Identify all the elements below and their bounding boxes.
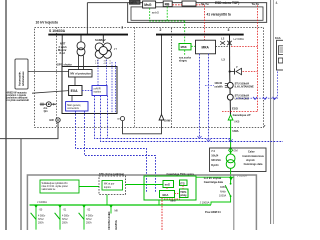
red control wire right riser — [257, 5, 259, 112]
blue control riser 3 — [95, 96, 231, 139]
KAA remote box — [275, 36, 286, 70]
svg-text:EXA: EXA — [71, 89, 79, 93]
LV switchboard enclosure — [27, 175, 256, 232]
svg-text:L2 630A: L2 630A — [234, 37, 245, 41]
svg-text:10kJ4: 10kJ4 — [211, 155, 219, 158]
green feeder arrow — [228, 115, 233, 120]
svg-text:anbG: anbG — [152, 11, 160, 15]
motor feeder — [102, 36, 104, 44]
green tap y178 — [196, 176, 234, 178]
busbar section A — [48, 34, 128, 36]
svg-text:ITG: ITG — [180, 181, 184, 185]
device box RB — [163, 1, 172, 7]
svg-text:J 1000A: J 1000A — [37, 200, 47, 204]
LV busbar green — [30, 204, 212, 206]
dashed link MRA to breaker — [216, 46, 230, 48]
green control wire drop to MSK — [184, 21, 186, 44]
red link EKA-TSPG — [175, 193, 180, 195]
green wire MK to enG — [126, 184, 164, 186]
device box MFR — [130, 0, 141, 4]
svg-text:4/0832-W muuasta: 4/0832-W muuasta — [7, 91, 28, 94]
svg-text:200A: 200A — [86, 221, 92, 224]
svg-text:P: P — [236, 65, 238, 69]
feeder to LV board — [20, 139, 22, 230]
genset LV cabinet green — [144, 176, 196, 200]
svg-text:vaksmaks ke: vaksmaks ke — [42, 188, 56, 191]
MSK note text — [179, 57, 192, 63]
earth link bottom left — [0, 122, 58, 138]
svg-text:41 varasyöttö ta: 41 varasyöttö ta — [207, 13, 231, 17]
ESD micro TSP outer enclosure — [128, 3, 267, 23]
svg-text:enG: enG — [165, 183, 170, 187]
relay EXA box — [69, 86, 82, 96]
svg-text:L3: L3 — [222, 58, 226, 62]
red control wire RB to Ta/Tu — [172, 4, 182, 6]
svg-text:Automaattin.: Automaattin. — [19, 71, 22, 86]
incoming feeder arrow line — [161, 36, 163, 115]
svg-text:7.4: 7.4 — [211, 150, 215, 153]
svg-text:ESD micro TSP): ESD micro TSP) — [215, 1, 239, 5]
svg-text:transformatorious: transformatorious — [242, 155, 264, 158]
LV feeder 1 — [31, 205, 46, 230]
svg-text:K6Bv: K6Bv — [220, 186, 227, 189]
auto sync selector box — [15, 59, 28, 89]
svg-text:ESO: ESO — [232, 107, 239, 111]
blue tele text — [214, 82, 223, 88]
generator leads blue a — [97, 60, 99, 86]
wire busbar to ESD cabinet — [87, 3, 127, 34]
10 kV switchgear enclosure (dashed) — [35, 27, 264, 127]
svg-text:Pow HDM 04: Pow HDM 04 — [205, 210, 221, 214]
svg-text:1: 1 — [121, 25, 123, 29]
svg-text:TSPG: TSPG — [180, 192, 186, 194]
MK inner box green — [102, 181, 123, 191]
box ITG — [180, 180, 188, 186]
svg-text:Dyn11: Dyn11 — [211, 164, 219, 167]
svg-text:RB: RB — [165, 3, 170, 7]
generator cluster — [95, 43, 111, 58]
page border right (double) — [271, 0, 274, 224]
red wire horizontal lower — [222, 111, 258, 113]
svg-text:630 kVA: 630 kVA — [211, 159, 221, 162]
svg-text:MV of protection: MV of protection — [70, 72, 91, 76]
svg-text:Cawirtelga TS/G systra: Cawirtelga TS/G systra — [167, 173, 195, 176]
note text block left — [7, 91, 30, 102]
green LV lead to switchboard — [230, 168, 232, 183]
svg-text:tahdistuksee: tahdistuksee — [22, 71, 25, 86]
CT circle 1 — [227, 82, 233, 88]
svg-text:200A: 200A — [38, 221, 44, 224]
CT 1 label — [235, 82, 254, 88]
svg-text:8.1d: 8.1d — [60, 51, 66, 55]
transformer NRT feeder — [80, 36, 82, 43]
wire note to EXA — [32, 91, 69, 94]
svg-text:kopics: kopics — [104, 186, 112, 189]
svg-text:MsG: MsG — [144, 3, 152, 7]
LV feeder 4 stub — [109, 205, 118, 214]
svg-text:Cummings data: Cummings data — [244, 163, 263, 166]
svg-text:EKA: EKA — [163, 193, 169, 197]
svg-text:NOUSU A1B4: NOUSU A1B4 — [107, 211, 111, 229]
svg-text:Qm: Qm — [44, 110, 48, 113]
svg-text:NHdr: NHdr — [220, 190, 226, 193]
green LV riser — [230, 120, 232, 154]
svg-text:4.: 4. — [276, 1, 279, 5]
svg-text:J 1000A: J 1000A — [200, 200, 210, 204]
blue control riser 2 — [85, 111, 156, 192]
transformer NRT — [77, 42, 85, 56]
box enG — [163, 181, 174, 188]
surge diode branch — [230, 68, 242, 74]
svg-text:connectors: connectors — [67, 107, 79, 110]
red label land — [164, 198, 180, 200]
cubicle divider b — [134, 27, 136, 127]
svg-text:SAIMAV: SAIMAV — [95, 38, 106, 42]
blue control riser 1 — [76, 111, 147, 192]
surge counter node GW — [49, 118, 60, 122]
svg-text:4x185A: 4x185A — [114, 220, 118, 230]
blue telemetering bus to KAA — [236, 70, 278, 98]
busbar section B — [156, 34, 244, 36]
green control wire from MsG — [150, 8, 185, 21]
relay MRA box — [196, 40, 216, 54]
svg-text:cm: cm — [117, 118, 120, 121]
green stub below MSK — [184, 50, 186, 56]
red control wire to MRA — [204, 5, 206, 40]
box EKA2 — [160, 191, 175, 198]
blue junction marks on bus — [198, 136, 233, 142]
svg-text:Calxe: Calxe — [248, 151, 255, 154]
LV switch fuse — [225, 183, 231, 197]
svg-text:proletions alkkuvat: proletions alkkuvat — [7, 97, 28, 100]
svg-text:MRA: MRA — [202, 45, 210, 49]
blue control riser 4 — [101, 96, 284, 142]
svg-text:shynck: shynck — [246, 159, 255, 162]
transformer NRT secondary leads — [79, 55, 84, 70]
terminal right GM — [117, 117, 124, 121]
wire MV to EXA — [74, 77, 76, 86]
LV note box green — [40, 180, 79, 193]
blue tele stub — [205, 84, 214, 86]
cubicle divider a — [56, 27, 58, 127]
green wire to LV busbar — [211, 196, 231, 204]
svg-text:land: land — [171, 199, 176, 202]
red link breaker to riser — [231, 46, 258, 48]
generator control cabinet (inner box) — [62, 67, 117, 114]
green link note to MK — [79, 186, 99, 188]
riser cable text vertical — [107, 211, 118, 230]
svg-text:GM: GM — [233, 149, 237, 153]
page border left — [5, 0, 7, 230]
svg-text:200A: 200A — [62, 221, 68, 224]
device box aux — [182, 1, 196, 6]
feeder arrow — [159, 114, 164, 120]
svg-text:L2: L2 — [221, 36, 225, 40]
transformer data text — [211, 150, 221, 167]
red link ITG-TSPG — [182, 186, 184, 190]
LV feeder 3 — [79, 205, 94, 230]
svg-text:xlognc: xlognc — [179, 59, 188, 62]
svg-text:rot-yhde asettamiskt: rot-yhde asettamiskt — [7, 99, 30, 102]
feeder continues — [229, 72, 232, 117]
CT 2 label — [235, 94, 250, 100]
LV switch label — [219, 186, 227, 197]
svg-text:prialg: prialg — [180, 195, 187, 197]
wire selector to MV protection — [28, 71, 69, 73]
CT circle 2 — [227, 94, 233, 100]
breaker X — [227, 41, 231, 45]
breaker drawout chevrons — [220, 41, 225, 44]
blue AVR module box — [92, 86, 107, 96]
green drop cabinet to busbar — [158, 200, 160, 205]
blue main genset control box — [66, 102, 88, 111]
earthing lead from cabinet — [123, 120, 162, 134]
blue junction marks on KAA bus — [253, 97, 277, 100]
blue wire EXA to AVR — [82, 90, 92, 92]
distribution transformer green — [226, 154, 235, 168]
red link enG-EKA — [166, 188, 168, 191]
generator leads blue b — [106, 60, 108, 86]
CT hatches — [225, 84, 229, 88]
svg-text:KAA: KAA — [275, 36, 281, 40]
box TSPG — [180, 189, 189, 198]
MK dashed box — [99, 176, 126, 195]
svg-text:GW: GW — [49, 118, 54, 122]
ESD micro TSP inner enclosure — [131, 7, 263, 20]
LV cubicle divider — [233, 175, 235, 230]
svg-text:proletion n muuta: proletion n muuta — [7, 94, 27, 97]
generator leads blue d — [115, 62, 117, 113]
svg-text:JT: JT — [114, 47, 117, 51]
junction dot L2/diode — [229, 70, 231, 72]
MV protection relay box — [69, 70, 92, 78]
red wire diode to riser — [243, 71, 258, 73]
outgoing feeder L2 — [229, 36, 231, 72]
label G-4 kV shytua — [204, 176, 224, 184]
cable data box — [210, 148, 267, 172]
device box MsG — [143, 1, 156, 8]
green junction GM — [229, 148, 238, 153]
svg-text:ILH LAITAKONE: ILH LAITAKONE — [235, 86, 254, 89]
svg-text:Cawirtelga data: Cawirtelga data — [204, 180, 224, 184]
svg-text:MFR: MFR — [130, 0, 137, 4]
svg-text:MSK: MSK — [181, 45, 187, 49]
green drop MK to busbar — [106, 195, 108, 206]
wire EXA down — [71, 96, 73, 102]
svg-text:10 kV kojeisto: 10 kV kojeisto — [36, 21, 59, 25]
blue MRA lead b — [208, 54, 210, 142]
svg-text:UKB: UKB — [234, 120, 240, 124]
svg-text:1000A: 1000A — [219, 195, 227, 198]
green control wire from RB — [166, 7, 168, 21]
MSK interlock box green — [179, 44, 191, 50]
svg-text:xx/xWh: xx/xWh — [214, 85, 223, 88]
svg-text:3: 3 — [228, 28, 230, 32]
red drop EKA to bottom — [161, 198, 163, 231]
svg-text:2: 2 — [160, 28, 162, 32]
blue MRA lead a — [199, 54, 201, 139]
energy meter symbol — [40, 102, 57, 113]
svg-text:S 10 630A: S 10 630A — [49, 29, 66, 33]
svg-text:Genetique xP: Genetique xP — [233, 113, 251, 117]
LV feeder 2 — [55, 205, 70, 230]
feeder wire to inner box left — [61, 36, 63, 67]
generator terminal text — [95, 61, 112, 66]
svg-text:MK: MK — [115, 209, 119, 212]
blue control riser 5 — [107, 96, 109, 139]
transformer NRT label — [58, 42, 67, 56]
svg-text:G-4 kV shytua: G-4 kV shytua — [204, 176, 222, 180]
cubicle divider c — [171, 28, 173, 128]
generator leads blue c — [111, 62, 113, 113]
svg-text:syottox: syottox — [94, 91, 102, 94]
svg-text:Ta,Tu: Ta,Tu — [252, 2, 260, 6]
svg-text:GAW: GAW — [164, 118, 171, 122]
svg-text:UMA: UMA — [232, 129, 238, 133]
green link MSK to MRA — [191, 45, 196, 47]
